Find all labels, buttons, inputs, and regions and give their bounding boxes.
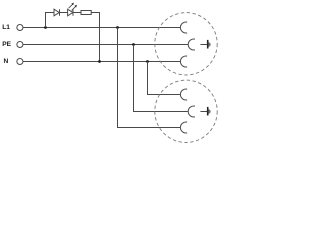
socket outlet X2 dashed circle (155, 80, 217, 142)
diode V1 (54, 9, 67, 16)
socket X1 contact N (180, 56, 187, 67)
svg-text:L1: L1 (2, 24, 10, 31)
svg-text:N: N (4, 58, 9, 65)
junction on N feeding socket 2 (146, 60, 149, 63)
junction on PE feeding socket 2 (132, 43, 135, 46)
wire branch vertical up (46, 13, 54, 28)
wire LED to resistor (73, 12, 81, 14)
wire L1 drop to socket 2 bottom contact (118, 28, 181, 128)
terminal circle N (17, 58, 23, 64)
LED V2 (68, 3, 77, 16)
socket X2 contact PE (188, 106, 195, 117)
wire PE drop to socket 2 middle contact (134, 45, 189, 112)
terminal circle PE (17, 41, 23, 47)
wire L1 horizontal (23, 27, 180, 29)
wire PE horizontal (23, 44, 188, 46)
wire N horizontal (23, 61, 180, 63)
junction on L1 for indicator branch (44, 26, 47, 29)
socket X1 PE pin (200, 40, 210, 49)
wire N drop to socket 2 top contact (148, 62, 181, 95)
junction on L1 feeding socket 2 (116, 26, 119, 29)
svg-text:PE: PE (2, 41, 11, 48)
junction branch on N (98, 60, 101, 63)
socket X2 contact L (180, 122, 187, 133)
wire resistor to N drop (91, 13, 99, 62)
socket X2 PE pin (200, 107, 210, 116)
socket X1 contact L (180, 22, 187, 33)
resistor R1 (81, 11, 91, 15)
socket X2 contact N (180, 89, 187, 100)
socket outlet X1 dashed circle (155, 13, 217, 75)
socket X1 contact PE (188, 39, 195, 50)
terminal circle L1 (17, 24, 23, 30)
